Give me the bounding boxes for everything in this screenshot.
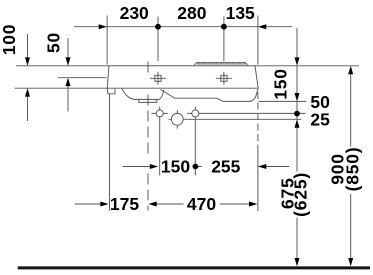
dim row 175 left tail bbox=[75, 203, 101, 205]
dim row 150-255 stub after dot bbox=[197, 166, 202, 168]
dim 100 upper stem bbox=[27, 34, 29, 58]
dim 50 left upper stem bbox=[67, 38, 69, 58]
arrow up dim 100 bbox=[25, 88, 30, 96]
arrow left dim 470 bbox=[148, 202, 156, 207]
junction dot row 150/255 bbox=[193, 164, 199, 170]
arrow down dim 900 floor bbox=[348, 258, 353, 266]
washbasin body (side profile) bbox=[107, 66, 258, 88]
siphon hole bbox=[171, 113, 183, 125]
svg-text:(625): (625) bbox=[291, 172, 311, 217]
rim bottom line left bbox=[15, 87, 108, 89]
floor line bbox=[18, 266, 370, 269]
dim 50 left lower stem bbox=[67, 86, 69, 112]
dim line 50-25 right vertical through dot bbox=[296, 101, 298, 119]
fixing holes level line 50 bbox=[152, 112, 306, 114]
svg-text:25: 25 bbox=[310, 110, 330, 130]
arrow up dim 50 left bbox=[66, 78, 71, 86]
arrow up dim 900 top bbox=[348, 66, 353, 74]
bowl profile bbox=[122, 89, 164, 100]
rim top line bbox=[16, 65, 359, 67]
dim line 150 right vertical upper bbox=[296, 28, 298, 93]
svg-text:150: 150 bbox=[270, 68, 290, 100]
dim row 150-255 left tail bbox=[123, 166, 150, 168]
svg-text:50: 50 bbox=[44, 32, 64, 53]
drain bump bbox=[139, 99, 157, 102]
arrow right dim 150 row bbox=[150, 164, 158, 169]
dim line 675 vertical bbox=[296, 127, 298, 258]
extension line faucet hole 1 bbox=[157, 17, 159, 62]
svg-text:135: 135 bbox=[226, 3, 255, 23]
svg-text:(850): (850) bbox=[342, 147, 362, 192]
extension line front edge long bbox=[109, 94, 111, 211]
top dimension line bbox=[74, 26, 292, 28]
left mounting tab under basin bbox=[107, 88, 115, 94]
extension line faucet hole 2 bbox=[223, 17, 225, 62]
dim row 255 right tail bbox=[266, 166, 289, 168]
arrow right dim 175 row bbox=[100, 202, 108, 207]
arrow down dim 150 right bottom bbox=[295, 93, 300, 101]
arrow down dim 675 floor bbox=[295, 258, 300, 266]
svg-text:175: 175 bbox=[110, 194, 139, 214]
serrated strip on rim top bbox=[194, 63, 247, 65]
fixing hole 1 centerline vertical bbox=[159, 107, 161, 176]
junction dot right 50/25 bbox=[294, 111, 300, 117]
apron bottom reference line right bbox=[259, 100, 307, 102]
svg-text:280: 280 bbox=[177, 3, 206, 23]
arrow down dim 50 left bbox=[66, 57, 71, 65]
fixing hole 2 centerline vertical bbox=[194, 107, 196, 176]
arrow down dim 100 bbox=[25, 57, 30, 65]
faucet hole crosshair 2 bbox=[216, 72, 232, 85]
dim 100 lower stem bbox=[27, 96, 29, 121]
svg-text:255: 255 bbox=[211, 156, 240, 176]
arrow right at x107 top bbox=[99, 24, 107, 29]
drain centerline (dashed) bbox=[147, 62, 149, 73]
extension line basin left edge bbox=[106, 16, 108, 65]
fixing hole 2 bbox=[192, 110, 199, 117]
junction dot top 280/135 bbox=[221, 24, 227, 30]
extension line basin right edge lower bbox=[257, 92, 259, 148]
arrow left at x258 top bbox=[258, 24, 266, 29]
tap deck rear edge line left bbox=[58, 77, 107, 79]
svg-text:100: 100 bbox=[0, 24, 19, 56]
junction dot top 230/280 bbox=[155, 24, 161, 30]
fixing hole 1 bbox=[156, 110, 163, 117]
siphon hole centerline vertical bbox=[176, 110, 178, 129]
arrow right dim 470 bbox=[249, 202, 257, 207]
faucet hole crosshair 1 bbox=[150, 72, 166, 85]
dim row 470 line bbox=[156, 203, 249, 205]
svg-text:150: 150 bbox=[161, 156, 190, 176]
arrow left dim 255 row bbox=[258, 164, 266, 169]
svg-text:470: 470 bbox=[187, 194, 216, 214]
svg-text:230: 230 bbox=[120, 3, 149, 23]
arrow down dim 150 right top bbox=[295, 57, 300, 65]
extension line basin right edge top bbox=[257, 16, 259, 65]
dim line 900 vertical bbox=[350, 74, 352, 259]
arrow up dim 25 right bbox=[295, 119, 300, 127]
siphon level line 25 bbox=[168, 118, 301, 120]
rear underside profile bbox=[161, 89, 258, 101]
